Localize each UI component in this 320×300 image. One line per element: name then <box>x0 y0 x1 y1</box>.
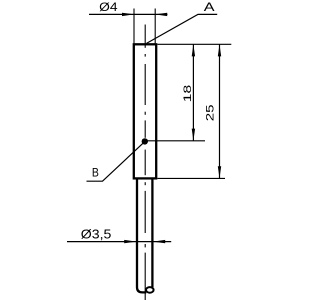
svg-text:Ø4: Ø4 <box>99 0 118 14</box>
arrow 18 bottom <box>192 129 195 141</box>
svg-text:B: B <box>92 166 99 180</box>
svg-text:Ø3,5: Ø3,5 <box>81 227 112 241</box>
leader B <box>87 142 145 182</box>
extension line left <box>133 9 135 44</box>
svg-text:A: A <box>204 0 216 14</box>
tube right edge <box>151 180 153 288</box>
arrow Ø4 right <box>155 13 167 16</box>
arrow 25 bottom <box>218 166 221 178</box>
extension line top right <box>157 43 231 45</box>
arrow 18 top <box>192 44 195 56</box>
tube left edge (lower narrow section) <box>137 180 146 293</box>
centerline <box>144 25 146 300</box>
arrow Ø3,5 left <box>124 240 136 243</box>
extension line at B level <box>145 140 205 142</box>
dimension Ø4 line <box>89 13 167 15</box>
tip loop <box>146 287 154 293</box>
arrow Ø3,5 right <box>153 240 165 243</box>
svg-text:25: 25 <box>205 104 217 121</box>
svg-text:18: 18 <box>182 85 194 102</box>
leader A <box>147 14 218 43</box>
extension line right <box>154 9 156 44</box>
dimension 25 line <box>219 44 221 178</box>
dimension Ø3,5 line <box>67 241 171 243</box>
node B dot <box>142 138 148 144</box>
body outline (upper cylinder) <box>134 44 156 178</box>
dimension 18 line <box>192 44 194 140</box>
arrow Ø4 left <box>122 13 134 16</box>
extension line at shoulder <box>157 177 225 179</box>
arrow 25 top <box>218 44 221 56</box>
